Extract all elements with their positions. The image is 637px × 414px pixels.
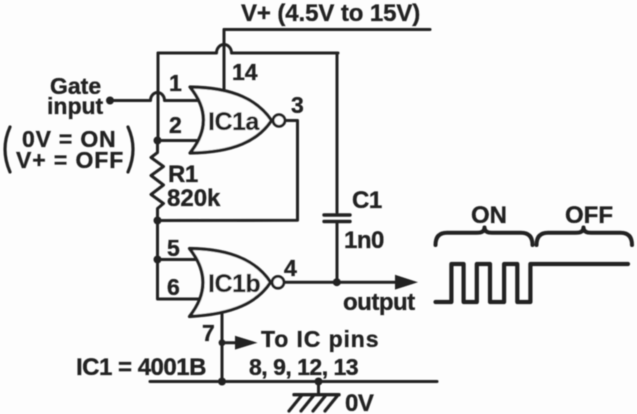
node gate input terminal [106, 97, 114, 105]
wire pin 14 supply drop [223, 30, 226, 96]
label Gate input [47, 73, 104, 119]
svg-text:6: 6 [167, 274, 180, 300]
net label 0V [345, 390, 374, 414]
svg-text:input: input [47, 93, 104, 119]
annotation 8, 9, 12, 13 [249, 354, 358, 380]
label R1 [168, 161, 198, 188]
label OFF [565, 202, 613, 229]
annotation ON brace [436, 228, 533, 246]
pin label 2 [169, 112, 182, 138]
node junction pin5 [154, 256, 162, 264]
wire ground rail 0V [150, 380, 437, 383]
label output [343, 289, 415, 316]
node junction pin7/ground [218, 378, 226, 386]
waveform output square wave [436, 264, 629, 302]
svg-text:C1: C1 [352, 187, 382, 214]
svg-text:820k: 820k [167, 185, 221, 212]
wire gate input to pin 1 with hop over bus [113, 93, 199, 101]
annotation To IC pins [261, 326, 379, 352]
pin label 6 [167, 274, 180, 300]
arrow to IC pins [222, 336, 258, 350]
svg-text:IC1b: IC1b [208, 270, 260, 298]
wire feedback pin3 to R1 bottom [158, 121, 298, 221]
svg-text:OFF: OFF [565, 202, 613, 229]
svg-text:1n0: 1n0 [344, 227, 384, 254]
svg-text:7: 7 [202, 320, 215, 346]
svg-text:V+ = OFF: V+ = OFF [16, 147, 124, 173]
pin label 1 [169, 70, 182, 96]
label 820k [167, 185, 221, 212]
annotation OFF brace [537, 228, 633, 246]
svg-text:2: 2 [169, 112, 182, 138]
net label V+ supply [241, 0, 420, 27]
svg-text:IC1 = 4001B: IC1 = 4001B [76, 354, 206, 381]
wire bus to pins 5 and 6 [158, 221, 200, 300]
pin label 5 [167, 235, 180, 261]
label ON [471, 202, 507, 229]
output arrowhead [395, 275, 418, 290]
svg-text:V+ (4.5V to 15V): V+ (4.5V to 15V) [241, 0, 420, 27]
wire V+ rail [224, 28, 430, 31]
annotation V+ = OFF [16, 147, 124, 173]
svg-text:R1: R1 [168, 161, 198, 188]
wire output from pin 4 [285, 281, 397, 284]
node junction pin2/R1 [154, 137, 162, 145]
annotation left parenthesis [5, 127, 10, 172]
svg-text:3: 3 [291, 92, 304, 118]
svg-text:output: output [343, 289, 415, 316]
node junction ground symbol tap [315, 378, 323, 386]
svg-text:1: 1 [169, 70, 182, 96]
ground symbol [289, 382, 339, 412]
svg-text:ON: ON [471, 202, 507, 229]
label C1 [352, 187, 382, 214]
wire left vertical bus [157, 53, 160, 141]
resistor R1 820k [151, 141, 164, 221]
svg-text:IC1a: IC1a [208, 108, 260, 136]
pin label 4 [284, 255, 297, 281]
annotation 0V = ON [22, 126, 116, 152]
wire pin 2 stub [158, 139, 199, 142]
svg-text:14: 14 [232, 59, 258, 85]
capacitor C1 wire from top rail [336, 53, 339, 213]
op-amp gate IC1b NOR [190, 249, 284, 317]
capacitor C1 plates [324, 215, 350, 282]
node junction C1/output [333, 278, 341, 286]
svg-text:0V: 0V [345, 390, 374, 414]
annotation right parenthesis [128, 127, 133, 172]
wire pin 7 to ground rail [221, 305, 224, 382]
node junction R1 bottom [154, 217, 162, 225]
svg-text:5: 5 [167, 235, 180, 261]
svg-text:8, 9, 12, 13: 8, 9, 12, 13 [249, 354, 358, 380]
svg-text:4: 4 [284, 255, 297, 281]
svg-text:To IC pins: To IC pins [261, 326, 379, 352]
pin label 14 [232, 59, 258, 85]
op-amp gate IC1a NOR [190, 87, 285, 153]
pin label 7 [202, 320, 215, 346]
node junction pin7 arrow tap [219, 339, 226, 346]
wire C1 top rail with hop over V+ drop [158, 45, 338, 54]
label 1n0 [344, 227, 384, 254]
pin label 3 [291, 92, 304, 118]
annotation IC1 = 4001B [76, 354, 206, 381]
